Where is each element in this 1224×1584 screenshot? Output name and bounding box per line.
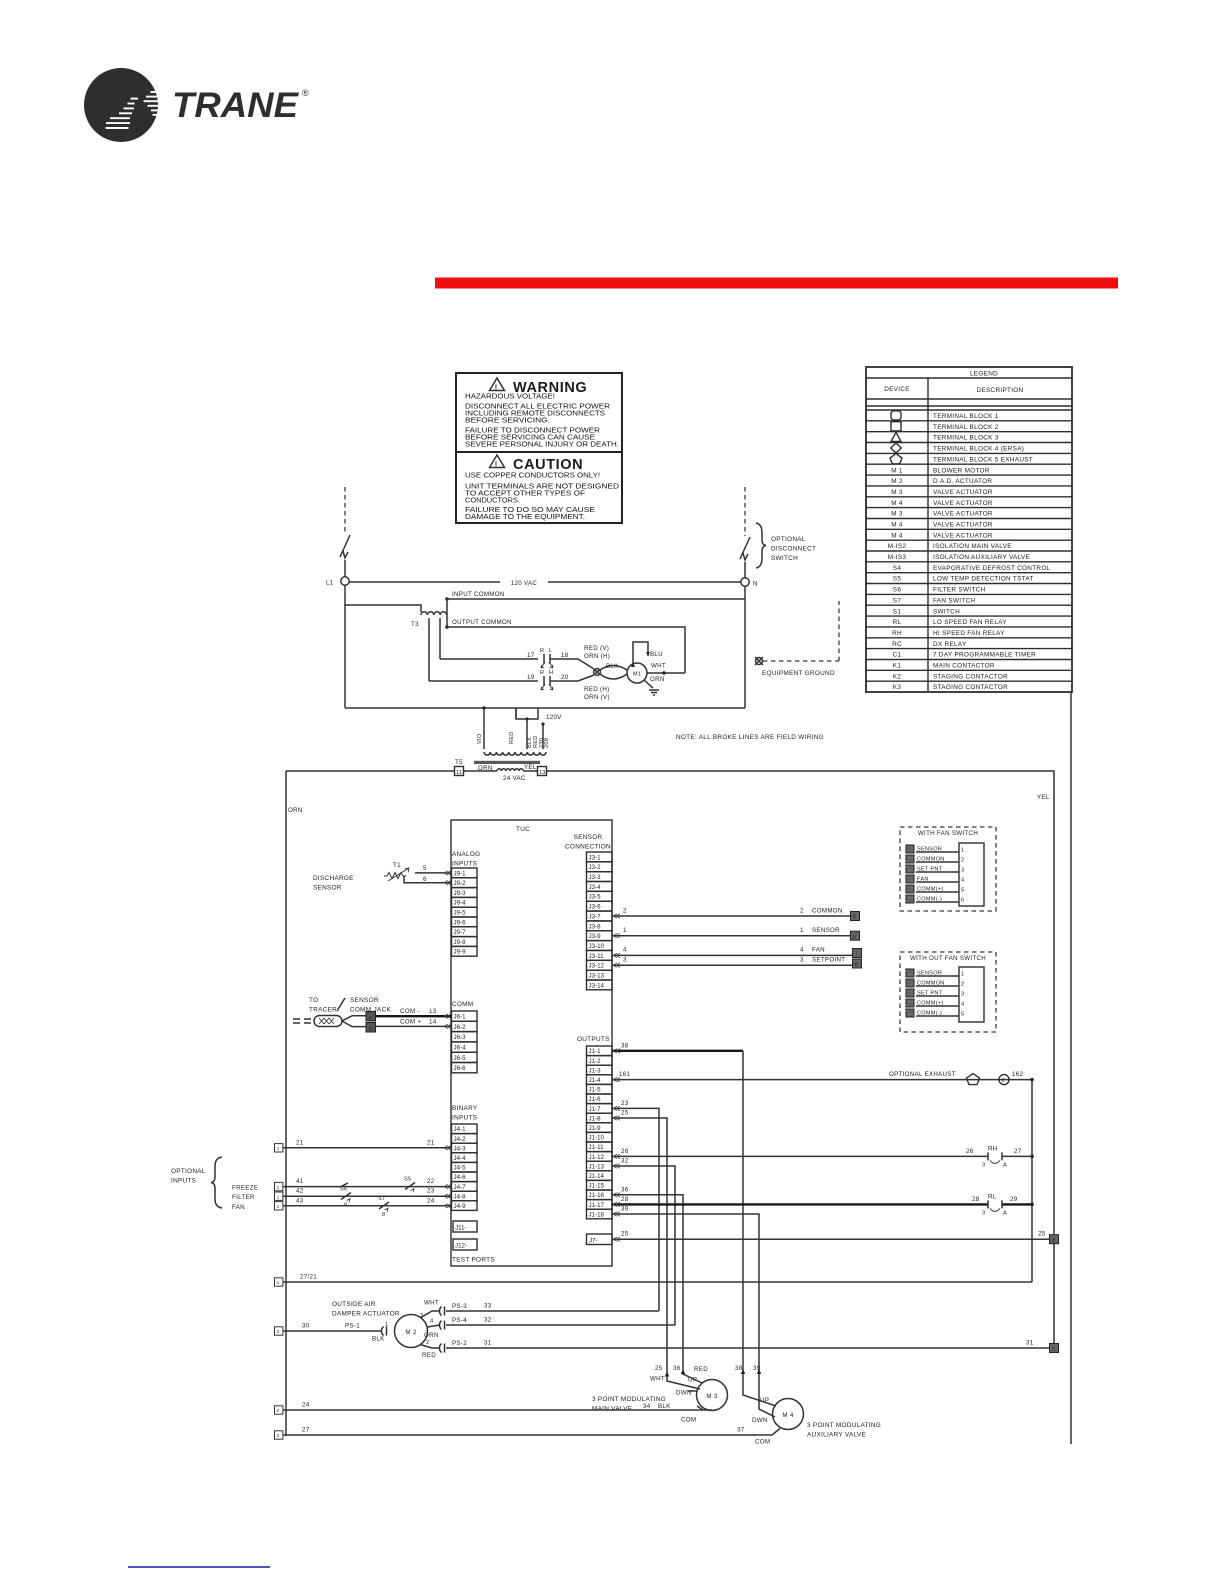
svg-text:J1-4: J1-4 — [589, 1077, 602, 1084]
svg-text:25: 25 — [1038, 1231, 1046, 1238]
svg-text:1: 1 — [800, 927, 804, 934]
svg-text:SENSOR: SENSOR — [350, 997, 379, 1004]
svg-text:R: R — [540, 648, 544, 654]
svg-text:27/21: 27/21 — [300, 1274, 317, 1281]
svg-text:28: 28 — [972, 1196, 980, 1203]
svg-text:4: 4 — [369, 1015, 372, 1021]
svg-text:M 4: M 4 — [782, 1412, 793, 1419]
svg-text:7: 7 — [855, 952, 858, 958]
svg-text:J1-18: J1-18 — [589, 1211, 605, 1218]
svg-text:RED: RED — [422, 1352, 436, 1359]
svg-text:FAN: FAN — [232, 1204, 245, 1211]
svg-text:S6: S6 — [340, 1187, 347, 1193]
svg-text:WITH FAN SWITCH: WITH FAN SWITCH — [918, 830, 978, 837]
wire 4 FAN from J3-11 — [612, 954, 853, 956]
svg-text:TRACER: TRACER — [309, 1007, 337, 1014]
comm jack dashes — [293, 1019, 311, 1023]
svg-text:UP: UP — [760, 1397, 769, 1404]
svg-text:31: 31 — [1026, 1340, 1034, 1347]
svg-text:1: 1 — [277, 1280, 280, 1286]
wire 31 RED PS-2 — [420, 1345, 440, 1349]
WITH OUT FAN SWITCH option box — [900, 952, 996, 1032]
svg-text:208: 208 — [544, 738, 550, 748]
terminal strip J4 — [452, 1124, 478, 1210]
svg-text:J6-4: J6-4 — [454, 1045, 467, 1052]
svg-text:PS-1: PS-1 — [345, 1323, 360, 1330]
svg-text:161: 161 — [619, 1071, 630, 1078]
svg-text:J6-5: J6-5 — [454, 1055, 467, 1062]
svg-text:ORN: ORN — [650, 676, 665, 683]
svg-text:3 POINT MODULATING: 3 POINT MODULATING — [807, 1422, 881, 1429]
svg-text:J3-13: J3-13 — [589, 973, 605, 980]
terminal block 2 circled — [999, 1075, 1009, 1085]
svg-text:5: 5 — [423, 865, 427, 872]
svg-text:2: 2 — [623, 908, 627, 915]
svg-text:J12-: J12- — [455, 1243, 467, 1250]
terminal block 4 symbol — [891, 443, 902, 453]
svg-text:27: 27 — [302, 1427, 310, 1434]
svg-text:DISCONNECT ALL ELECTRIC POWER: DISCONNECT ALL ELECTRIC POWER — [465, 404, 610, 411]
svg-text:J7-: J7- — [589, 1238, 598, 1245]
svg-text:M 4: M 4 — [891, 532, 903, 539]
svg-text:1: 1 — [277, 1185, 280, 1191]
svg-text:M 3: M 3 — [891, 511, 903, 518]
wire 23 from J1-7 — [612, 1108, 659, 1311]
footer link line — [128, 1566, 270, 1568]
svg-text:!: ! — [495, 460, 498, 469]
svg-text:J3-8: J3-8 — [589, 923, 602, 930]
svg-text:J3-3: J3-3 — [589, 874, 602, 881]
svg-text:3: 3 — [1052, 1347, 1055, 1353]
svg-text:24: 24 — [302, 1402, 310, 1409]
svg-text:J4-2: J4-2 — [454, 1136, 467, 1143]
svg-text:®: ® — [302, 88, 309, 98]
exhaust return vertical — [1031, 1080, 1033, 1282]
svg-text:VALVE ACTUATOR: VALVE ACTUATOR — [933, 522, 993, 529]
svg-text:BLOWER MOTOR: BLOWER MOTOR — [933, 467, 990, 474]
svg-text:23: 23 — [621, 1100, 629, 1107]
svg-text:3: 3 — [420, 1313, 423, 1319]
svg-text:21: 21 — [296, 1139, 304, 1146]
svg-text:J3-5: J3-5 — [589, 894, 602, 901]
svg-text:DAMPER ACTUATOR: DAMPER ACTUATOR — [332, 1311, 400, 1318]
relay coil RL — [988, 1200, 1002, 1211]
svg-text:37: 37 — [737, 1427, 745, 1434]
wire 3 SETPOINT from J3-12 — [612, 964, 853, 966]
contact RL 17-18 — [541, 654, 553, 668]
svg-text:17: 17 — [527, 652, 535, 659]
svg-text:J3-9: J3-9 — [589, 933, 602, 940]
terminal block 11 — [455, 767, 464, 776]
svg-text:S5: S5 — [893, 576, 902, 583]
svg-text:TEST PORTS: TEST PORTS — [452, 1257, 495, 1264]
terminal block 21 — [275, 1144, 283, 1152]
wire 2 COMMON from J3-7 — [612, 915, 851, 917]
svg-text:RL: RL — [988, 1193, 997, 1200]
wire 25 from J7 to right rail — [612, 1238, 1050, 1240]
svg-text:DISCONNECT: DISCONNECT — [771, 546, 816, 553]
svg-text:8: 8 — [855, 962, 858, 968]
terminal 8 — [853, 959, 862, 968]
svg-text:INCLUDING REMOTE DISCONNECTS: INCLUDING REMOTE DISCONNECTS — [465, 411, 605, 418]
svg-text:36: 36 — [621, 1186, 629, 1193]
svg-text:OUTPUT COMMON: OUTPUT COMMON — [452, 619, 512, 626]
L1 vertical to lower rail — [344, 605, 346, 708]
terminal block right 31 — [1050, 1344, 1059, 1353]
svg-text:A: A — [1003, 1210, 1007, 1216]
svg-text:RED (H): RED (H) — [584, 686, 609, 693]
svg-text:J3-2: J3-2 — [589, 864, 602, 871]
T5 secondary winding 24 VAC — [497, 769, 523, 771]
terminal 6 — [851, 931, 860, 940]
svg-text:RED: RED — [694, 1366, 708, 1373]
WHT wire M1 to output common — [647, 672, 685, 674]
svg-text:2: 2 — [800, 908, 804, 915]
BLU loop wire — [633, 642, 648, 664]
svg-text:BLK: BLK — [658, 1403, 671, 1410]
svg-text:DWN: DWN — [752, 1417, 768, 1424]
wire 27 to M4 COM — [284, 1434, 773, 1436]
test port J11 — [453, 1221, 477, 1232]
svg-text:UNIT TERMINALS ARE NOT DESIGNE: UNIT TERMINALS ARE NOT DESIGNED — [465, 484, 619, 491]
svg-text:18: 18 — [561, 652, 569, 659]
svg-text:FAN: FAN — [812, 947, 825, 954]
svg-text:OPTIONAL EXHAUST: OPTIONAL EXHAUST — [889, 1071, 956, 1078]
terminal strip J1 — [587, 1046, 613, 1219]
svg-text:31: 31 — [484, 1340, 492, 1347]
wire COM+ 14 to J6-2 — [376, 1025, 452, 1027]
svg-text:SENSOR: SENSOR — [313, 885, 342, 892]
svg-text:!: ! — [495, 383, 498, 392]
svg-text:A: A — [1003, 1162, 1007, 1168]
wire 5 to J9-1 — [415, 872, 452, 874]
svg-text:CONDUCTORS.: CONDUCTORS. — [465, 498, 520, 505]
svg-text:M 2: M 2 — [405, 1329, 416, 1336]
junction terminal X — [594, 669, 601, 676]
svg-text:DISCHARGE: DISCHARGE — [313, 875, 354, 882]
svg-text:3: 3 — [961, 868, 964, 874]
svg-text:UP: UP — [688, 1377, 697, 1384]
svg-text:36: 36 — [673, 1365, 681, 1372]
wire 41 FREEZE to J4-7 — [284, 1186, 452, 1188]
wire L1 to transformer T3 — [345, 585, 421, 612]
warning caution label box — [456, 373, 622, 523]
svg-text:120 VAC: 120 VAC — [511, 580, 538, 587]
svg-text:J9-5: J9-5 — [454, 910, 467, 917]
svg-text:VALVE ACTUATOR: VALVE ACTUATOR — [933, 500, 993, 507]
red divider bar — [435, 278, 1118, 289]
N vertical to lower rail — [744, 586, 746, 708]
svg-text:1: 1 — [385, 1322, 388, 1328]
svg-text:J1-17: J1-17 — [589, 1202, 605, 1209]
main 120V rail — [345, 707, 745, 709]
svg-text:24: 24 — [427, 1197, 435, 1204]
relay coil RH — [988, 1152, 1002, 1163]
terminal block 5 symbol — [890, 454, 902, 464]
switch S6 on wire 42 — [341, 1193, 351, 1203]
terminal 7 — [853, 949, 862, 958]
svg-text:TERMINAL BLOCK 5 EXHAUST: TERMINAL BLOCK 5 EXHAUST — [933, 456, 1033, 463]
svg-text:26: 26 — [966, 1148, 974, 1155]
svg-text:29: 29 — [1010, 1196, 1018, 1203]
motor M1 lens wires — [600, 666, 627, 671]
svg-text:11: 11 — [456, 770, 462, 776]
comm terminal squares — [366, 1012, 376, 1022]
svg-text:C1: C1 — [893, 652, 902, 659]
wires 18/20 converge to junction — [550, 659, 594, 669]
wire 6 to J9-2 — [404, 876, 452, 883]
svg-text:TERMINAL BLOCK 4 (ERSA): TERMINAL BLOCK 4 (ERSA) — [933, 446, 1024, 453]
svg-text:PS-3: PS-3 — [452, 1303, 467, 1310]
terminal block 3 symbol — [891, 432, 901, 441]
svg-text:6: 6 — [853, 934, 856, 940]
svg-text:WHT: WHT — [650, 1376, 665, 1383]
wire 27/21 common return — [284, 1281, 1033, 1283]
terminal block right 25 — [1050, 1235, 1059, 1244]
svg-text:3: 3 — [982, 1210, 985, 1216]
svg-text:M-IS2: M-IS2 — [888, 543, 907, 550]
svg-text:SENSOR: SENSOR — [812, 927, 840, 934]
svg-text:INPUT COMMON: INPUT COMMON — [452, 591, 505, 598]
svg-text:3: 3 — [623, 957, 627, 964]
svg-text:25: 25 — [621, 1110, 629, 1117]
svg-text:J9-3: J9-3 — [454, 890, 467, 897]
svg-text:FREEZE: FREEZE — [232, 1185, 258, 1192]
svg-text:CONNECTION: CONNECTION — [565, 844, 611, 851]
svg-text:1: 1 — [277, 1204, 280, 1210]
wire INPUT COMMON — [447, 598, 745, 600]
svg-text:SEVERE PERSONAL INJURY OR DEAT: SEVERE PERSONAL INJURY OR DEATH. — [465, 442, 619, 449]
svg-text:RC: RC — [892, 641, 902, 648]
svg-text:42: 42 — [296, 1188, 304, 1195]
wire 17 to RL contact — [429, 680, 538, 682]
svg-text:J6-3: J6-3 — [454, 1034, 467, 1041]
svg-text:VIO: VIO — [477, 733, 483, 744]
svg-text:3: 3 — [1052, 1238, 1055, 1244]
svg-text:J9-2: J9-2 — [454, 880, 467, 887]
wire OUTPUT COMMON — [447, 627, 685, 673]
svg-text:TRANE: TRANE — [172, 86, 300, 125]
svg-text:J9-1: J9-1 — [454, 870, 467, 877]
svg-text:27: 27 — [1014, 1148, 1022, 1155]
svg-text:L1: L1 — [326, 580, 334, 587]
svg-text:EQUIPMENT GROUND: EQUIPMENT GROUND — [762, 670, 835, 677]
svg-text:J1-6: J1-6 — [589, 1096, 602, 1103]
wire 32 from J1-13 — [612, 1166, 675, 1325]
svg-text:3: 3 — [800, 957, 804, 964]
svg-text:WHT: WHT — [424, 1300, 439, 1307]
L1 field wiring dashed drop — [344, 487, 346, 534]
svg-text:J1-14: J1-14 — [589, 1173, 605, 1180]
motor M2 — [395, 1315, 428, 1348]
svg-text:WITH OUT FAN SWITCH: WITH OUT FAN SWITCH — [910, 955, 986, 962]
svg-text:BINARY: BINARY — [452, 1105, 478, 1112]
svg-text:SWITCH: SWITCH — [933, 608, 960, 615]
wire 26 from J1-12 to relay RH — [612, 1155, 988, 1157]
svg-text:34: 34 — [643, 1403, 651, 1410]
svg-text:ORN: ORN — [424, 1332, 439, 1339]
svg-text:K1: K1 — [893, 663, 902, 670]
svg-text:K3: K3 — [893, 684, 902, 691]
terminal J7 — [587, 1234, 613, 1245]
svg-text:J9-8: J9-8 — [454, 939, 467, 946]
svg-text:2: 2 — [277, 1329, 280, 1335]
svg-text:J4-9: J4-9 — [454, 1203, 467, 1210]
svg-text:AUXILIARY VALVE: AUXILIARY VALVE — [807, 1432, 866, 1439]
svg-text:FAILURE TO DISCONNECT POWER: FAILURE TO DISCONNECT POWER — [465, 428, 600, 435]
terminal strip J6 — [452, 1011, 478, 1073]
svg-text:8: 8 — [382, 1212, 385, 1218]
svg-text:J3-1: J3-1 — [589, 854, 602, 861]
svg-text:J3-7: J3-7 — [589, 913, 602, 920]
contact RH 19-20 — [541, 676, 553, 690]
contact PS-1 — [377, 1327, 387, 1336]
svg-text:S1: S1 — [893, 608, 902, 615]
left rail ORN — [285, 771, 287, 1436]
svg-text:J1-8: J1-8 — [589, 1115, 602, 1122]
svg-text:NOTE: ALL BROKE LINES ARE FIEL: NOTE: ALL BROKE LINES ARE FIELD WIRING — [676, 734, 824, 741]
svg-text:LEGEND: LEGEND — [970, 371, 998, 378]
ground at M1 — [649, 690, 659, 695]
wire 32 ORN PS-4 — [428, 1325, 441, 1327]
svg-text:J4-8: J4-8 — [454, 1193, 467, 1200]
svg-text:SETPOINT: SETPOINT — [812, 957, 845, 964]
svg-text:BLU: BLU — [650, 651, 663, 658]
svg-text:3: 3 — [982, 1162, 985, 1168]
svg-text:STAGING CONTACTOR: STAGING CONTACTOR — [933, 684, 1008, 691]
svg-text:SWITCH: SWITCH — [771, 555, 798, 562]
svg-text:ANALOG: ANALOG — [452, 851, 480, 858]
svg-text:J4-7: J4-7 — [454, 1184, 467, 1191]
svg-text:MAIN CONTACTOR: MAIN CONTACTOR — [933, 663, 995, 670]
svg-text:TERMINAL BLOCK 2: TERMINAL BLOCK 2 — [933, 424, 999, 431]
svg-text:33: 33 — [484, 1303, 492, 1310]
valve actuator M3 — [697, 1380, 728, 1411]
svg-text:J3-10: J3-10 — [589, 943, 605, 950]
svg-text:43: 43 — [296, 1197, 304, 1204]
svg-text:RL: RL — [893, 619, 902, 626]
svg-text:RH: RH — [892, 630, 902, 637]
svg-text:M1: M1 — [633, 672, 641, 678]
N disconnect switch — [740, 537, 750, 560]
svg-text:FAILURE TO DO SO MAY CAUSE: FAILURE TO DO SO MAY CAUSE — [465, 507, 595, 514]
wire 25 from J1-8 — [612, 1118, 700, 1389]
svg-text:J1-2: J1-2 — [589, 1058, 602, 1065]
outer right boundary — [1070, 692, 1072, 1444]
svg-text:J3-11: J3-11 — [589, 953, 605, 960]
wire 1 SENSOR from J3-9 — [612, 935, 851, 937]
svg-text:S4: S4 — [893, 565, 902, 572]
svg-text:M 3: M 3 — [891, 489, 903, 496]
TUC controller box — [451, 820, 612, 1266]
svg-text:S7: S7 — [378, 1196, 385, 1202]
svg-text:J1-13: J1-13 — [589, 1163, 605, 1170]
svg-text:6: 6 — [423, 876, 427, 883]
svg-text:YEL: YEL — [1037, 794, 1050, 801]
terminal block 1 symbol — [891, 411, 901, 420]
svg-text:2: 2 — [277, 1433, 280, 1439]
svg-text:OUTPUTS: OUTPUTS — [577, 1036, 610, 1043]
svg-text:T1: T1 — [393, 862, 401, 869]
svg-text:J9-4: J9-4 — [454, 900, 467, 907]
svg-text:ORN (H): ORN (H) — [584, 653, 610, 660]
svg-text:19: 19 — [527, 674, 535, 681]
svg-text:J6-1: J6-1 — [454, 1014, 467, 1021]
wire 38 from J1-1 — [612, 1050, 743, 1052]
svg-text:J3-6: J3-6 — [589, 904, 602, 911]
wire 30 PS-1 — [284, 1330, 378, 1332]
svg-text:COMM: COMM — [452, 1001, 473, 1008]
svg-text:OUTSIDE AIR: OUTSIDE AIR — [332, 1301, 376, 1308]
svg-text:TERMINAL BLOCK 1: TERMINAL BLOCK 1 — [933, 413, 999, 420]
svg-text:ISOLATION MAIN VALVE: ISOLATION MAIN VALVE — [933, 543, 1012, 550]
svg-text:2: 2 — [277, 1408, 280, 1414]
svg-text:30: 30 — [302, 1323, 310, 1330]
node N — [741, 578, 749, 586]
N field wiring dashed drop — [744, 487, 746, 536]
svg-text:13: 13 — [429, 1008, 437, 1015]
svg-text:5: 5 — [853, 915, 856, 921]
svg-text:J1-15: J1-15 — [589, 1183, 605, 1190]
svg-text:J6-2: J6-2 — [454, 1024, 467, 1031]
svg-text:DESCRIPTION: DESCRIPTION — [977, 387, 1024, 394]
wire COM- 13 to J6-1 — [376, 1015, 452, 1017]
sensor T1 — [384, 868, 409, 881]
svg-text:HI SPEED FAN RELAY: HI SPEED FAN RELAY — [933, 630, 1005, 637]
svg-text:38: 38 — [735, 1365, 743, 1372]
svg-text:BLK: BLK — [372, 1336, 385, 1343]
svg-text:STAGING CONTACTOR: STAGING CONTACTOR — [933, 673, 1008, 680]
svg-text:COM: COM — [681, 1417, 696, 1424]
optional disconnect switch brace and label — [756, 523, 766, 568]
svg-text:VALVE ACTUATOR: VALVE ACTUATOR — [933, 511, 993, 518]
svg-text:4: 4 — [430, 1319, 433, 1325]
svg-text:26: 26 — [621, 1148, 629, 1155]
node L1 — [341, 577, 349, 585]
svg-text:TUC: TUC — [516, 826, 530, 833]
svg-text:TERMINAL BLOCK 3: TERMINAL BLOCK 3 — [933, 435, 999, 442]
terminal 5 — [851, 912, 860, 921]
svg-text:J4-5: J4-5 — [454, 1165, 467, 1172]
svg-text:3: 3 — [961, 992, 964, 998]
terminal block 13 — [538, 767, 547, 776]
svg-text:COM: COM — [755, 1439, 770, 1446]
legend table — [866, 367, 1072, 692]
svg-text:INPUTS: INPUTS — [452, 861, 477, 868]
svg-text:ORN: ORN — [288, 807, 303, 814]
svg-text:INPUTS: INPUTS — [452, 1115, 477, 1122]
svg-text:RED (V): RED (V) — [584, 645, 609, 652]
svg-text:M 3: M 3 — [706, 1393, 717, 1400]
svg-text:BEFORE SERVICING.: BEFORE SERVICING. — [465, 418, 550, 425]
equipment ground dashed wire — [763, 660, 839, 662]
switch S5 on wire 41 — [405, 1183, 415, 1193]
svg-text:1: 1 — [277, 1194, 280, 1200]
wire 33 WHT PS-3 — [421, 1311, 440, 1318]
svg-text:5: 5 — [961, 1012, 964, 1018]
svg-text:5: 5 — [961, 888, 964, 894]
svg-text:25: 25 — [621, 1231, 629, 1238]
svg-text:CAUTION: CAUTION — [513, 457, 583, 473]
svg-text:J4-6: J4-6 — [454, 1174, 467, 1181]
svg-text:COM +: COM + — [400, 1019, 421, 1026]
svg-text:LOW TEMP DETECTION TSTAT: LOW TEMP DETECTION TSTAT — [933, 576, 1034, 583]
svg-text:M-IS3: M-IS3 — [888, 554, 907, 561]
motor M1 — [627, 663, 647, 683]
equipment ground symbol — [755, 657, 763, 665]
svg-text:6: 6 — [961, 898, 964, 904]
svg-text:S6: S6 — [893, 587, 902, 594]
